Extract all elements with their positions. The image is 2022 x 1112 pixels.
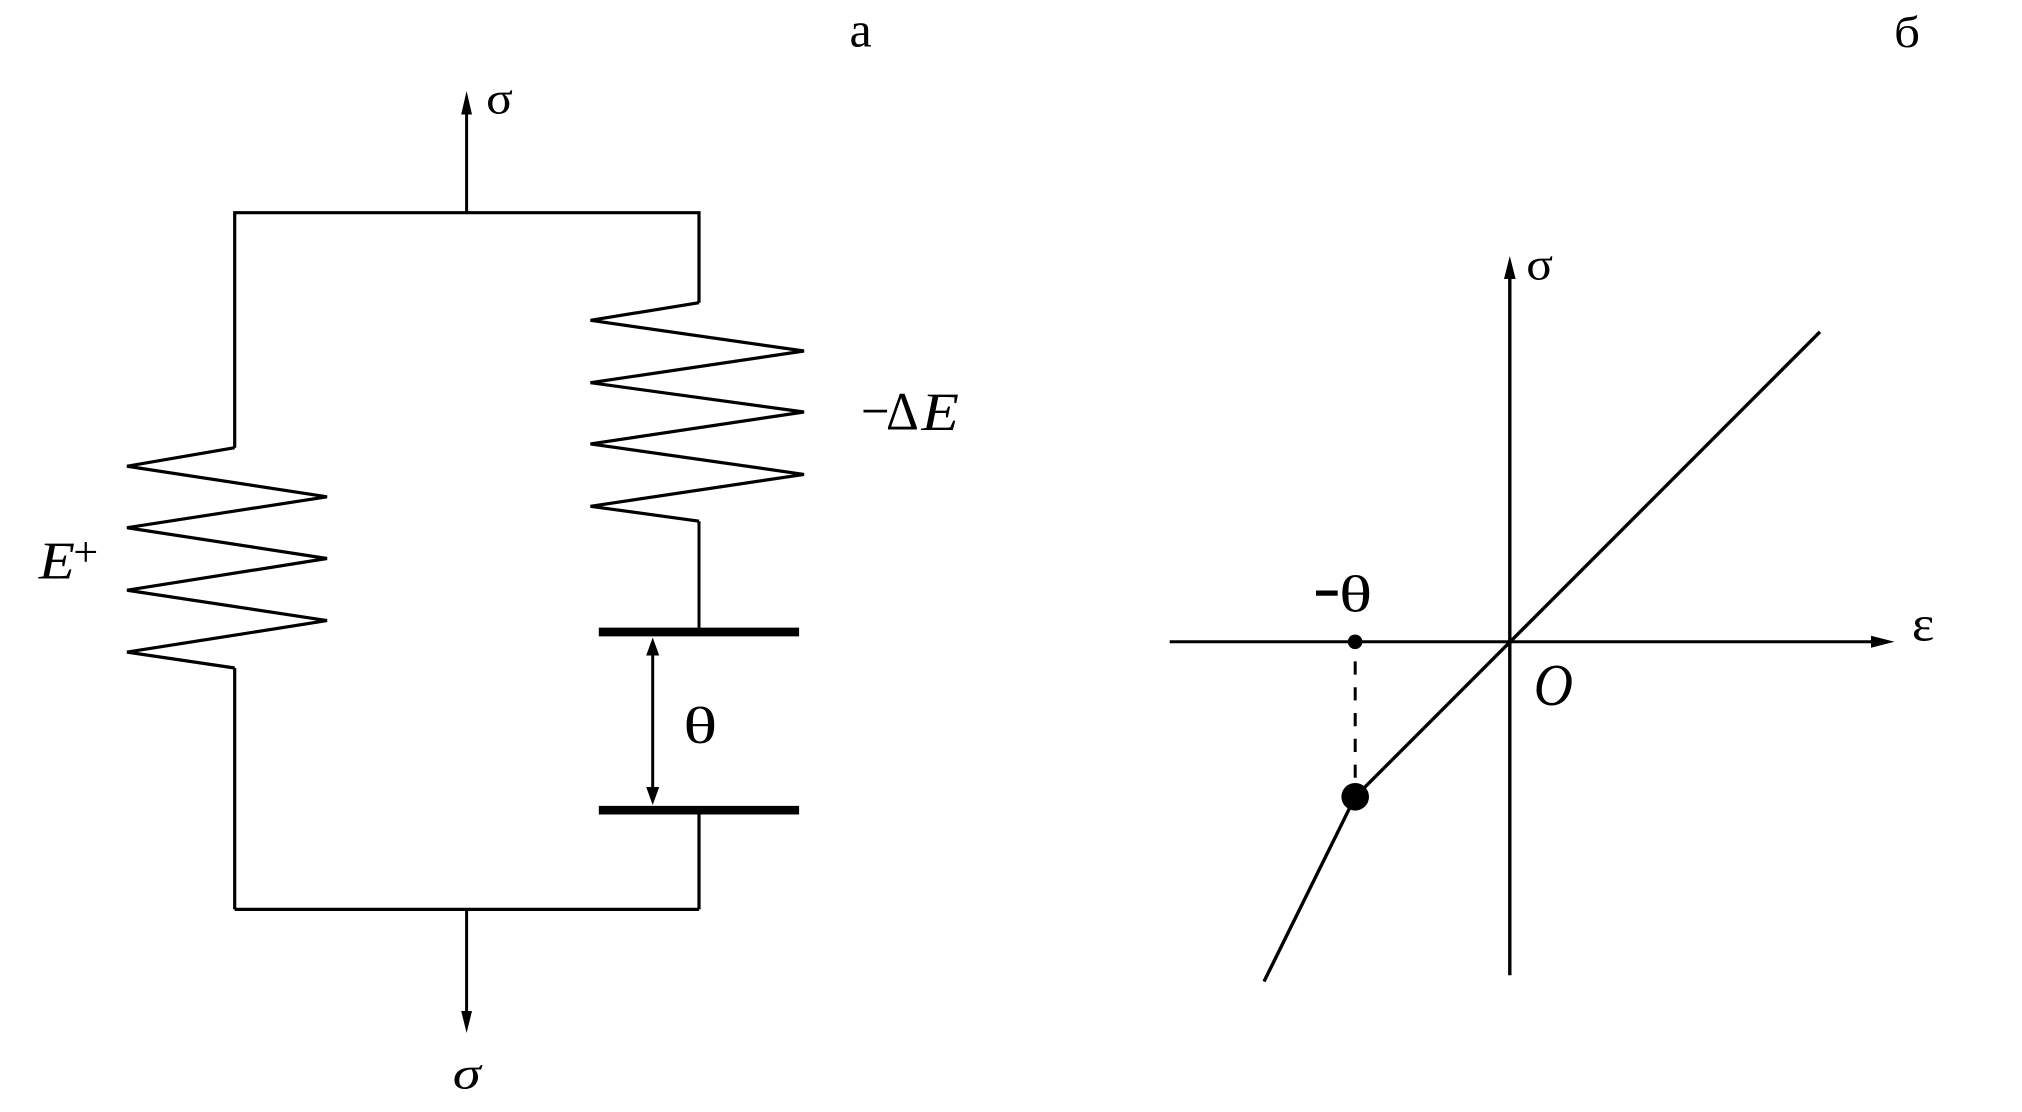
svg-text:E: E	[38, 532, 75, 590]
svg-text:+: +	[73, 530, 98, 576]
curve upper segment	[1355, 332, 1820, 797]
small dot at -θ	[1348, 635, 1363, 650]
label -ΔE (value of right spring)	[861, 381, 959, 442]
svg-text:O: O	[1534, 652, 1573, 718]
wire left rail lower	[233, 668, 236, 909]
wire right rail below gap	[697, 815, 700, 910]
spring E+	[127, 448, 327, 668]
sigma axis (vertical)	[1504, 256, 1516, 975]
svg-text:σ: σ	[1526, 239, 1553, 290]
svg-text:ε: ε	[1912, 595, 1934, 651]
gap lower plate	[599, 806, 799, 815]
wire right rail to gap	[698, 521, 701, 627]
svg-text:θ: θ	[683, 698, 717, 755]
svg-text:σ: σ	[486, 72, 513, 123]
wire top bar with left and right rails	[235, 213, 699, 448]
label E+ (value of left spring)	[38, 530, 99, 590]
svg-text:б: б	[1894, 8, 1920, 57]
curve lower segment	[1264, 797, 1355, 982]
svg-text:σ: σ	[453, 1047, 484, 1098]
svg-text:E: E	[920, 382, 959, 442]
wire bottom bar	[235, 908, 699, 911]
gap arrow θ (double-headed)	[646, 638, 659, 806]
label -θ on epsilon axis	[1316, 567, 1372, 624]
arrow sigma bottom (load arrow)	[461, 909, 472, 1033]
spring -ΔE	[591, 303, 805, 522]
svg-text:а: а	[850, 2, 872, 58]
big dot	[1341, 783, 1369, 811]
epsilon axis (horizontal)	[1170, 636, 1895, 648]
arrow sigma top (load arrow)	[461, 91, 472, 213]
svg-text:θ: θ	[1339, 567, 1372, 624]
svg-text:Δ: Δ	[886, 381, 919, 441]
gap upper plate	[599, 628, 799, 637]
dashed line	[1354, 661, 1357, 783]
